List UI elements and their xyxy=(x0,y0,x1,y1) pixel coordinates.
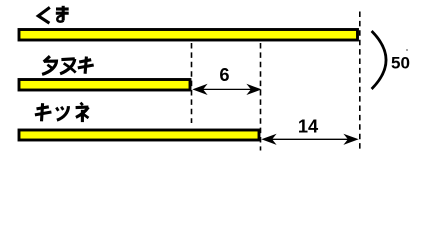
label くま (kuma) xyxy=(38,6,68,23)
bar タヌキ (tanuki) yellow xyxy=(19,80,190,91)
dashed line at kuma bar end x=359.8 xyxy=(359,12,361,151)
label キツネ (kitsune) xyxy=(35,103,89,123)
bar キツネ (kitsune) yellow xyxy=(19,130,259,140)
bar くま (kuma) yellow xyxy=(19,30,358,41)
brace for 50 xyxy=(372,31,386,89)
label タヌキ (tanuki) xyxy=(42,56,94,74)
svg-text:6: 6 xyxy=(219,64,229,85)
arrow 14 (between fox end and kuma end) xyxy=(261,134,358,145)
stray dot xyxy=(406,49,408,51)
dashed line at tanuki bar end x=191.5 xyxy=(191,43,193,123)
svg-text:14: 14 xyxy=(298,115,319,136)
dashed line at fox bar end x=260.5 xyxy=(260,43,262,151)
arrow 6 (between tanuki end and fox end) xyxy=(192,84,261,95)
svg-text:50: 50 xyxy=(391,54,410,73)
